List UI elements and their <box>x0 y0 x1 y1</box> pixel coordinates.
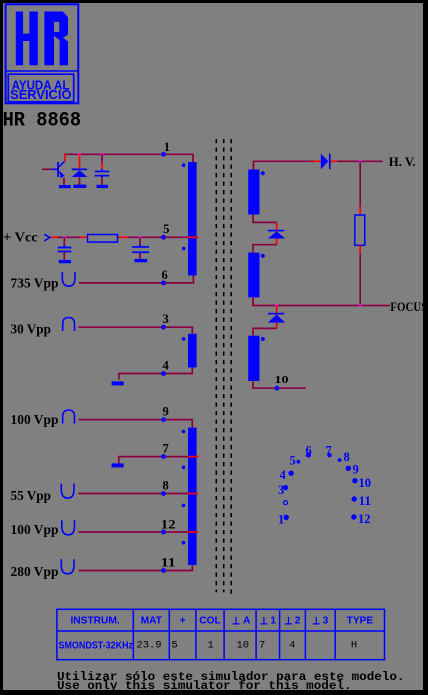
wire D6 red vertical <box>276 306 278 329</box>
pinout diagram pad 6 <box>306 452 311 457</box>
ground C3 <box>134 259 147 262</box>
wire C3 top <box>139 237 141 246</box>
wire pin11 <box>79 565 193 571</box>
table header ground A <box>233 617 240 624</box>
HR logo box <box>6 4 79 103</box>
svg-text:30 Vpp: 30 Vpp <box>11 322 52 337</box>
secondary winding S1 <box>248 170 259 215</box>
svg-text:280 Vpp: 280 Vpp <box>11 564 59 579</box>
wire pin5 red segments <box>50 236 128 238</box>
wire focus resistor top <box>359 161 361 207</box>
svg-text:A: A <box>243 616 251 627</box>
svg-text:1: 1 <box>207 640 213 652</box>
svg-text:4: 4 <box>163 358 170 372</box>
svg-text:MAT: MAT <box>141 616 163 627</box>
wire HV rail to label <box>337 160 383 162</box>
svg-text:735 Vpp: 735 Vpp <box>11 276 59 291</box>
diode D1 <box>72 169 87 171</box>
svg-text:10: 10 <box>359 476 372 490</box>
wire pin3 <box>79 327 193 334</box>
svg-text:HR 8868: HR 8868 <box>3 110 82 133</box>
wire D6 to S3 top <box>253 328 277 335</box>
svg-text:7: 7 <box>326 443 332 457</box>
primary winding W1 pins 1-5-6 <box>188 162 197 276</box>
waveform symbol 30 Vpp <box>63 318 75 332</box>
svg-text:10: 10 <box>236 640 249 652</box>
wire pin7 <box>119 457 188 464</box>
wire D1 to ground <box>79 177 81 185</box>
pinout diagram pad 7 <box>327 453 331 457</box>
polarity dot W3 section 7-8 <box>182 466 186 470</box>
table header ground 2 <box>285 617 292 624</box>
wire S1 bottom to D5 <box>253 214 277 222</box>
wire pin1 rail <box>64 154 193 162</box>
junction C1 rail <box>101 153 104 156</box>
pin 6 pad <box>161 281 166 286</box>
pin 3 pad <box>161 325 166 330</box>
transformer core <box>216 139 231 594</box>
svg-text:7: 7 <box>259 640 265 652</box>
ground pin7 <box>112 463 124 467</box>
HR logo letter R <box>44 12 68 66</box>
svg-text:3: 3 <box>323 616 329 627</box>
wire pin8 <box>79 493 189 495</box>
transistor Q1 base lead <box>42 168 51 170</box>
table header ground 1 <box>260 617 267 624</box>
svg-text:1: 1 <box>164 140 170 154</box>
junction HV node <box>359 160 362 163</box>
svg-text:6: 6 <box>162 268 168 282</box>
svg-text:12: 12 <box>161 517 176 531</box>
svg-text:+ Vcc: + Vcc <box>3 229 38 244</box>
pin 5 pad <box>161 235 166 240</box>
svg-text:5: 5 <box>163 222 169 236</box>
wire C1 to ground <box>101 178 103 185</box>
pin 1 pad <box>161 152 166 157</box>
table border <box>57 609 385 659</box>
pin 11 pad <box>161 568 166 573</box>
junction D6 focus rail <box>275 304 278 307</box>
pin 10 pad <box>275 386 280 391</box>
wire S3 bottom pin10 <box>253 381 306 388</box>
resistor R1 <box>88 235 118 243</box>
primary winding W3 pins 9-7-8-12-11 <box>188 428 197 565</box>
resistor R2 focus bleeder <box>355 215 365 245</box>
table column dividers <box>133 609 335 659</box>
svg-text:4: 4 <box>289 640 295 652</box>
svg-text:3: 3 <box>278 483 284 497</box>
wire C2 top <box>63 237 65 247</box>
svg-text:7: 7 <box>163 441 169 455</box>
polarity dot W3 section 8-12 <box>182 504 186 508</box>
svg-text:+: + <box>180 616 186 627</box>
svg-text:SMONDST-32KHz: SMONDST-32KHz <box>59 640 134 652</box>
winding W3 tap pin8 <box>188 493 198 495</box>
secondary winding S3 <box>248 336 259 381</box>
wire pin4 <box>119 367 193 379</box>
wire pin6 <box>79 275 193 283</box>
pinout diagram pad 11 <box>352 496 357 501</box>
primary winding W2 pins 3-4 <box>188 334 197 368</box>
pinout diagram pad 10 <box>352 478 357 483</box>
capacitor C3 <box>139 244 141 246</box>
svg-text:TYPE: TYPE <box>347 616 374 627</box>
svg-text:3: 3 <box>163 312 169 326</box>
svg-text:COL: COL <box>199 616 221 627</box>
svg-text:1: 1 <box>278 512 284 526</box>
HR logo letter H <box>16 11 38 65</box>
waveform symbol 100 Vpp pin9 <box>63 410 75 424</box>
wire Q1 emitter to ground <box>63 178 65 186</box>
waveform symbol 100 Vpp pin12 <box>62 520 75 535</box>
svg-text:6: 6 <box>306 443 312 457</box>
pinout diagram pad 3 <box>283 485 288 490</box>
svg-text:Use only this simulator for th: Use only this simulator for this model. <box>57 679 352 693</box>
secondary winding S2 <box>248 253 259 298</box>
svg-text:23.9: 23.9 <box>136 640 161 652</box>
table header ground 3 <box>313 617 320 624</box>
wire focus resistor bottom <box>359 245 361 254</box>
svg-text:100 Vpp: 100 Vpp <box>11 522 59 537</box>
pinout diagram pad 12 <box>351 514 356 519</box>
ground C2 <box>59 260 71 263</box>
svg-text:5: 5 <box>171 640 177 652</box>
junction C3 <box>139 236 142 239</box>
svg-text:12: 12 <box>358 512 371 526</box>
svg-text:1: 1 <box>270 616 276 627</box>
wire D5 red vertical <box>276 222 278 244</box>
svg-text:11: 11 <box>161 555 176 569</box>
svg-text:8: 8 <box>163 478 169 492</box>
pinout diagram pad 2 open <box>284 501 288 505</box>
svg-text:2: 2 <box>295 616 301 627</box>
wire S1 top to HV rail <box>254 161 314 169</box>
svg-text:9: 9 <box>163 404 169 418</box>
polarity dot W3 section 9-7 <box>182 430 186 434</box>
pin 4 pad <box>161 371 166 376</box>
ground C1 <box>97 185 109 188</box>
capacitor C2 <box>63 245 65 247</box>
wire C3 to ground <box>139 253 141 259</box>
wire pin9 <box>79 420 193 428</box>
polarity dot W1 section 1-5 <box>182 163 186 167</box>
wire D5 to S2 top <box>253 245 277 253</box>
ground Q1 <box>59 185 71 188</box>
wire D1 anode red <box>79 154 81 168</box>
svg-text:11: 11 <box>359 494 372 508</box>
polarity dot S3 <box>261 337 265 341</box>
wire C1 top <box>101 154 103 163</box>
pinout diagram pad 1 <box>284 515 289 520</box>
pinout diagram pad 9 <box>346 466 351 471</box>
junction D1 rail <box>78 153 81 156</box>
svg-text:55 Vpp: 55 Vpp <box>11 488 52 503</box>
pinout diagram pad 5 <box>296 460 300 464</box>
winding W3 tap pin12 <box>188 531 198 533</box>
pinout diagram pad 8 <box>338 458 342 462</box>
winding W3 tap pin7 <box>188 456 198 458</box>
svg-text:FOCUS: FOCUS <box>390 300 427 314</box>
pin 9 pad <box>161 417 166 422</box>
svg-text:4: 4 <box>280 468 287 482</box>
wire pin5 rail <box>58 236 188 238</box>
pin 7 pad <box>161 454 166 459</box>
polarity dot S2 <box>261 254 265 258</box>
svg-text:H: H <box>351 640 357 652</box>
wire S2 bottom to FOCUS rail <box>253 297 390 305</box>
diode D4 HV rectifier <box>321 154 329 170</box>
junction C2 <box>63 236 66 239</box>
svg-text:100 Vpp: 100 Vpp <box>11 412 59 427</box>
ground D1 <box>73 185 86 188</box>
svg-text:H. V.: H. V. <box>389 155 416 169</box>
Vcc input arrow <box>44 234 50 241</box>
winding W1 tap pin5 <box>188 236 198 238</box>
junction FOCUS node <box>359 304 362 307</box>
svg-text:INSTRUM.: INSTRUM. <box>70 616 119 627</box>
transistor Q1 <box>57 162 59 177</box>
svg-text:5: 5 <box>290 453 296 467</box>
wire C2 to ground <box>63 252 65 260</box>
diode D5 <box>268 230 284 232</box>
waveform symbol 280 Vpp <box>61 559 74 574</box>
waveform symbol 55 Vpp <box>61 484 74 499</box>
svg-text:8: 8 <box>344 450 350 464</box>
polarity dot S1 <box>261 171 265 175</box>
table row divider <box>57 630 385 632</box>
wire HV diode red leads <box>313 160 337 162</box>
pinout diagram pad 4 <box>288 471 293 476</box>
ground pin4 <box>112 381 124 385</box>
polarity dot W3 section 12-11 <box>182 541 186 545</box>
polarity dot W1 section 5-6 <box>182 247 186 251</box>
waveform symbol 735 Vpp <box>62 272 75 287</box>
svg-text:SERVICIO: SERVICIO <box>10 88 72 102</box>
diode D6 <box>268 313 284 315</box>
pin 8 pad <box>161 491 166 496</box>
polarity dot W2 <box>182 337 186 341</box>
svg-text:10: 10 <box>275 374 290 386</box>
wire Q1 collector red <box>64 154 66 161</box>
capacitor C1 <box>101 169 103 171</box>
svg-text:9: 9 <box>353 462 359 476</box>
wire pin12 <box>79 531 189 533</box>
pin 12 pad <box>161 530 166 535</box>
